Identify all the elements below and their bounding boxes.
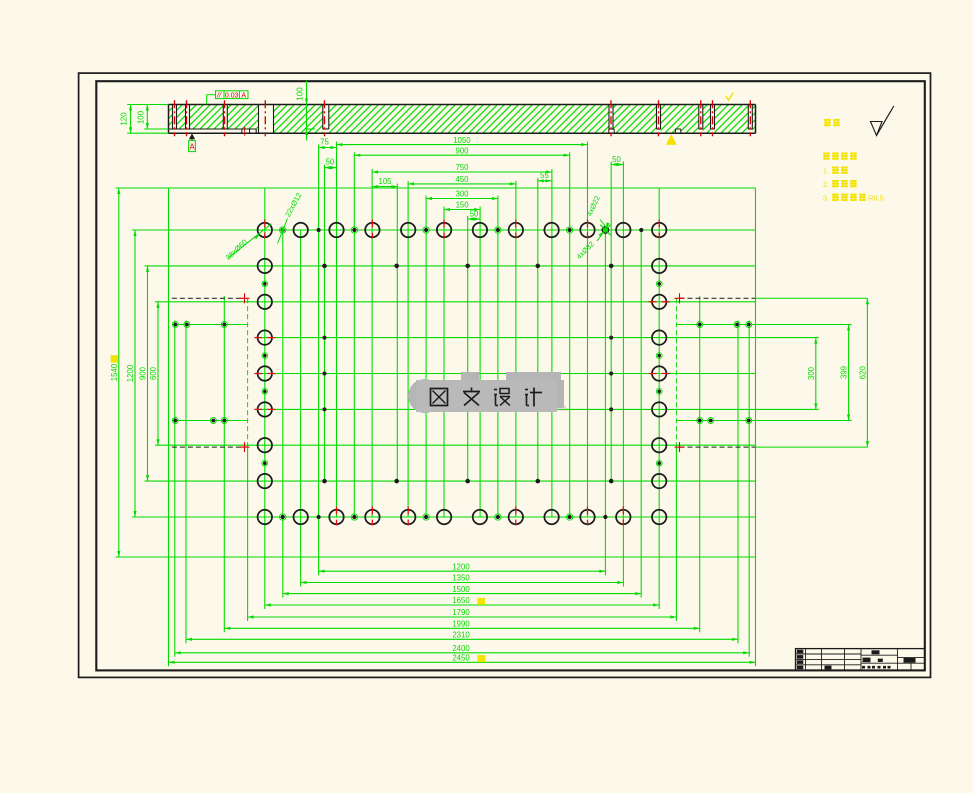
- interior grid dots: [322, 264, 613, 484]
- watermark text: [431, 388, 543, 407]
- bottom row small pilot dots: [280, 514, 608, 520]
- dimension 620 (vertical): [858, 298, 869, 447]
- svg-text:55: 55: [540, 171, 549, 180]
- svg-text:105: 105: [378, 177, 392, 186]
- dimension 1200 (horizontal): [319, 562, 606, 572]
- dimension 600 (vertical): [149, 302, 160, 445]
- svg-text:50: 50: [470, 209, 479, 218]
- svg-text:300: 300: [455, 190, 469, 199]
- surface roughness symbol: [871, 106, 894, 136]
- svg-text:1200: 1200: [452, 562, 470, 571]
- svg-text:m: m: [559, 403, 567, 413]
- svg-text:1540: 1540: [110, 363, 119, 381]
- dimension 1500 (horizontal): [283, 585, 641, 595]
- svg-text:150: 150: [456, 201, 470, 210]
- dimension 900 (vertical): [139, 266, 150, 481]
- dimension 105 (horizontal): [372, 177, 397, 188]
- svg-text:2400: 2400: [452, 644, 470, 653]
- title block text marks: [797, 650, 916, 670]
- leader label 38xO60: [224, 224, 272, 262]
- svg-text:100: 100: [296, 87, 305, 101]
- dimension 50 (horizontal): [611, 155, 623, 166]
- section view hatching: [169, 105, 756, 134]
- yellow highlight on 1540: [111, 355, 119, 363]
- right hole column (7 holes): [649, 259, 670, 489]
- dimension 100 (section middle vertical): [296, 81, 315, 141]
- right column small dots: [656, 281, 662, 466]
- svg-text:1790: 1790: [452, 608, 470, 617]
- dimension 2310 (horizontal): [186, 631, 738, 641]
- svg-text:75: 75: [320, 138, 329, 147]
- svg-text:A: A: [241, 93, 246, 100]
- dimension 399 (vertical): [840, 325, 851, 421]
- section slot walls: [173, 105, 753, 134]
- svg-text:A: A: [189, 143, 195, 152]
- svg-text:2310: 2310: [452, 631, 470, 640]
- svg-text:620: 620: [858, 366, 867, 380]
- parallelism tolerance frame // 0.03 A: [207, 90, 248, 104]
- dimension 900 (horizontal): [354, 146, 569, 156]
- svg-text:1200: 1200: [126, 364, 135, 382]
- svg-text:1.: 1.: [823, 166, 829, 175]
- yellow finish mark above section: [726, 93, 733, 101]
- yellow highlight after 2450: [478, 655, 486, 662]
- watermark backdrop: [408, 372, 567, 413]
- hidden dashed lines with red section marks: [172, 293, 868, 621]
- svg-text:300: 300: [807, 366, 816, 380]
- dimension 300 (horizontal): [426, 190, 498, 200]
- svg-text:R0.5: R0.5: [868, 194, 884, 203]
- svg-text:1050: 1050: [453, 136, 471, 145]
- top hole row (12 holes): [258, 220, 667, 239]
- section view outline: [169, 105, 756, 134]
- bottom hole row (12 holes): [258, 507, 667, 526]
- dimension 1350 (horizontal): [301, 574, 624, 584]
- section bottom drill holes: [242, 129, 681, 133]
- dimension 2450 (horizontal): [169, 654, 756, 664]
- svg-text:0.03: 0.03: [225, 93, 239, 100]
- svg-text:750: 750: [455, 163, 469, 172]
- dimension 450 (horizontal): [408, 175, 516, 185]
- plate outline (plan view): [116, 188, 756, 666]
- dimension 1050 (horizontal): [337, 136, 588, 146]
- svg-text:1990: 1990: [452, 620, 470, 629]
- counterbored hole callout 4xO22: [574, 194, 610, 261]
- dimension 2400 (horizontal): [175, 644, 749, 654]
- yellow note line 2: [823, 180, 857, 189]
- corner pattern dots: [172, 322, 751, 424]
- dimension 120/100 (section left): [120, 105, 169, 134]
- svg-text:2450: 2450: [452, 654, 470, 663]
- yellow finish mark below section: [666, 134, 677, 145]
- svg-text:399: 399: [840, 366, 849, 379]
- title block table: [796, 649, 925, 671]
- svg-text:2.: 2.: [823, 180, 829, 189]
- dimension 50 (horizontal): [468, 209, 480, 220]
- svg-text:1500: 1500: [452, 585, 470, 594]
- left hole column (7 holes): [254, 259, 275, 489]
- yellow highlight after 1650: [478, 598, 486, 605]
- datum feature symbol A: [189, 133, 196, 151]
- yellow note line 3: [823, 194, 884, 203]
- top row small pilot dots: [280, 227, 644, 233]
- inner border frame: [96, 81, 925, 670]
- svg-text:1350: 1350: [452, 574, 470, 583]
- outer border frame: [79, 73, 931, 677]
- dimension 1540 (vertical): [110, 188, 121, 557]
- dimension 1200 (vertical): [126, 230, 137, 517]
- vertical extension lines: [175, 142, 749, 657]
- dimension 150 (horizontal): [444, 201, 480, 211]
- leader label 22xO12: [278, 191, 304, 243]
- dimension 1990 (horizontal): [224, 620, 699, 630]
- dimension 55 (horizontal): [538, 171, 552, 182]
- hole row centerlines (horizontal): [132, 230, 819, 517]
- section red centerlines: [175, 100, 751, 136]
- svg-text:450: 450: [455, 175, 469, 184]
- svg-text:900: 900: [455, 146, 469, 155]
- inner dot row lines: [173, 325, 852, 421]
- svg-text:900: 900: [139, 366, 148, 380]
- dimension 1650 (horizontal): [265, 596, 659, 606]
- svg-text:100: 100: [136, 110, 145, 124]
- yellow note line: technical requirements title: [823, 153, 857, 160]
- dimension 75 (horizontal): [319, 138, 337, 150]
- left column small dots: [262, 281, 268, 466]
- svg-text:600: 600: [149, 366, 158, 380]
- svg-text:3.: 3.: [823, 194, 829, 203]
- yellow note line 1: [823, 166, 848, 175]
- dimension 50 (horizontal): [325, 158, 337, 170]
- svg-text:120: 120: [120, 112, 129, 126]
- svg-text:50: 50: [612, 155, 621, 164]
- svg-text:50: 50: [326, 158, 335, 167]
- yellow note: surface default text: [824, 119, 840, 126]
- svg-text:1650: 1650: [452, 596, 470, 605]
- dimension 300 (vertical): [807, 338, 818, 410]
- dimension 750 (horizontal): [372, 163, 552, 173]
- dimension 1790 (horizontal): [248, 608, 677, 618]
